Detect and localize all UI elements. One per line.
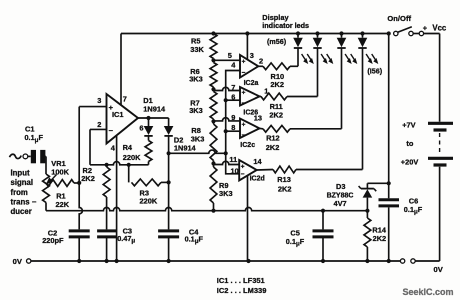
capacitor C1 — [25, 124, 47, 174]
svg-text:D3: D3 — [336, 182, 345, 191]
resistor R4 — [123, 141, 152, 165]
svg-text:(m56): (m56) — [267, 37, 287, 46]
node R2 top — [105, 163, 109, 167]
svg-text:2K2: 2K2 — [266, 143, 280, 152]
comparator IC2c — [240, 113, 262, 148]
LED D7 — [358, 31, 383, 169]
node IC1 output junction — [146, 116, 150, 120]
svg-text:to: to — [406, 139, 413, 148]
svg-text:SeekIC.com: SeekIC.com — [403, 287, 454, 297]
label IC types — [217, 276, 267, 295]
wire IC2d ground drop — [247, 176, 249, 262]
svg-text:−: − — [242, 132, 246, 139]
svg-text:6: 6 — [139, 123, 143, 132]
node 0V junctions — [77, 259, 391, 263]
AC input source — [10, 154, 31, 159]
svg-text:1N914: 1N914 — [174, 144, 197, 153]
switch On/Off — [387, 14, 440, 36]
wire 0V rail — [13, 257, 401, 266]
svg-text:33K: 33K — [190, 45, 204, 54]
svg-text:1N914: 1N914 — [143, 105, 166, 114]
wire tap D to pin11 — [214, 155, 240, 165]
zener D3 — [327, 182, 389, 211]
svg-text:+: + — [109, 103, 114, 112]
node signal takeoff — [167, 151, 171, 155]
svg-text:−: − — [109, 126, 114, 135]
svg-text:from: from — [11, 188, 28, 197]
wire tap C to pin9 — [214, 113, 241, 122]
svg-text:22K: 22K — [56, 200, 70, 209]
svg-text:6: 6 — [231, 93, 235, 102]
svg-text:9: 9 — [231, 113, 235, 122]
svg-text:Input: Input — [11, 169, 30, 178]
label input transducer — [11, 169, 37, 216]
svg-text:Vcc: Vcc — [432, 23, 447, 32]
svg-text:8: 8 — [231, 123, 235, 132]
svg-text:+: + — [242, 59, 246, 66]
svg-text:2: 2 — [97, 120, 101, 129]
svg-text:0.1μF: 0.1μF — [404, 205, 423, 216]
wire IC1 pin7 riser — [121, 34, 127, 106]
svg-text:7: 7 — [123, 95, 127, 104]
resistor R6 — [189, 60, 217, 89]
comparator IC2a — [240, 51, 263, 87]
svg-text:+7V: +7V — [402, 121, 415, 130]
capacitor C3 — [97, 227, 135, 261]
svg-text:2: 2 — [259, 56, 263, 65]
svg-text:ducer: ducer — [11, 207, 32, 216]
svg-text:3K3: 3K3 — [191, 134, 205, 143]
wire pin3 node to C2 — [79, 183, 82, 230]
svg-text:+: + — [242, 121, 246, 128]
svg-text:R11: R11 — [270, 102, 283, 111]
svg-text:IC2 . . . LM339: IC2 . . . LM339 — [217, 286, 267, 295]
wire IC2a pin3 riser — [246, 34, 248, 60]
LED D6 — [337, 31, 358, 128]
wire IC1 pin3 — [79, 107, 106, 183]
svg-text:IC2d: IC2d — [250, 176, 265, 183]
svg-text:5: 5 — [228, 51, 232, 60]
svg-text:3: 3 — [97, 96, 101, 105]
resistor R10 — [258, 63, 298, 89]
wire IC1 pin2 — [90, 129, 107, 164]
svg-text:IC2a: IC2a — [244, 80, 259, 87]
svg-text:100K: 100K — [51, 167, 69, 176]
svg-text:0V: 0V — [434, 265, 444, 274]
svg-text:2K2: 2K2 — [373, 234, 387, 243]
resistor R7 — [189, 89, 217, 121]
node VR1 junction — [77, 181, 81, 185]
svg-text:4V7: 4V7 — [334, 199, 347, 208]
resistor R12 — [260, 125, 342, 151]
svg-text:−: − — [241, 171, 245, 178]
svg-text:220pF: 220pF — [42, 236, 64, 245]
resistor R2 — [81, 165, 110, 230]
svg-text:220K: 220K — [140, 196, 158, 205]
svg-text:14: 14 — [253, 157, 262, 166]
resistor R3 — [129, 165, 169, 206]
node ladder bottom — [211, 209, 215, 213]
capacitor C6 — [379, 183, 423, 261]
terminal 0V connector — [400, 259, 443, 274]
svg-text:trans −: trans − — [11, 197, 37, 206]
svg-text:+: + — [241, 163, 245, 170]
svg-text:3K3: 3K3 — [189, 106, 203, 115]
svg-text:2K2: 2K2 — [278, 184, 292, 193]
capacitor C5 — [286, 211, 334, 261]
wire IC1 output — [138, 118, 169, 132]
svg-text:IC1: IC1 — [112, 110, 124, 119]
label Vcc — [423, 23, 447, 32]
node ladder top — [211, 31, 215, 35]
wire tap A to pin5 — [214, 51, 241, 61]
resistor R8 — [191, 121, 217, 163]
node tap C — [211, 119, 215, 123]
svg-text:2K2: 2K2 — [81, 174, 95, 183]
label display leds — [262, 13, 309, 30]
wire IC1 pin4 to 0V — [116, 136, 118, 261]
node pin3 riser top — [245, 31, 249, 35]
svg-text:0V: 0V — [13, 257, 23, 266]
wire inverting chain — [226, 61, 240, 176]
svg-text:signal: signal — [11, 178, 34, 187]
svg-text:11: 11 — [229, 155, 237, 164]
svg-text:7: 7 — [231, 83, 235, 92]
svg-text:10: 10 — [231, 166, 239, 175]
capacitor C2 — [42, 228, 89, 261]
svg-text:R4: R4 — [123, 143, 133, 152]
wire signal to chain — [169, 150, 226, 153]
node C5 top — [321, 209, 325, 213]
wire D2 node to C4 — [168, 182, 170, 229]
potentiometer VR1 — [46, 159, 79, 186]
LED D4 — [267, 31, 314, 66]
svg-text:R12: R12 — [266, 134, 280, 143]
svg-text:−: − — [242, 69, 246, 76]
wire switched supply feed — [388, 34, 390, 184]
label watermark — [403, 287, 454, 297]
comparator IC26 — [240, 86, 268, 116]
resistor R9 — [210, 164, 232, 211]
wire feedback run — [107, 162, 149, 165]
svg-text:3: 3 — [250, 51, 254, 60]
svg-text:+: + — [242, 89, 246, 96]
svg-text:3K3: 3K3 — [219, 189, 233, 198]
diode D1 — [143, 96, 166, 141]
svg-text:indicator leds: indicator leds — [262, 21, 309, 30]
svg-text:IC2c: IC2c — [240, 142, 255, 149]
resistor R14 — [364, 211, 387, 261]
node chain pin6 — [224, 98, 228, 102]
capacitor C4 — [158, 227, 203, 261]
comparator IC2d — [239, 157, 265, 183]
svg-text:13: 13 — [254, 113, 262, 122]
wire top supply rail — [121, 33, 389, 35]
resistor R13 — [257, 166, 363, 193]
resistor R5 — [190, 34, 217, 61]
wire reference rail — [46, 207, 367, 210]
node tap B — [211, 87, 215, 91]
svg-text:On/Off: On/Off — [387, 14, 411, 23]
op-amp IC1 — [97, 94, 138, 152]
svg-text:2K2: 2K2 — [269, 111, 283, 120]
svg-text:C1: C1 — [25, 124, 34, 133]
svg-text:IC1 . . . LF351: IC1 . . . LF351 — [217, 276, 265, 285]
node tap D — [211, 161, 215, 165]
resistor R1 — [43, 174, 70, 211]
node D2 cathode junction — [167, 180, 171, 184]
node R3 branch — [127, 163, 131, 167]
battery B1 — [401, 34, 453, 262]
svg-text:220K: 220K — [123, 153, 141, 162]
node D3 top junction — [387, 181, 391, 185]
node tap A — [211, 58, 215, 62]
diode D2 — [164, 118, 197, 182]
LED D5 — [313, 31, 334, 96]
svg-text:(I56): (I56) — [367, 67, 382, 76]
svg-text:−: − — [242, 100, 246, 107]
node signal chain join — [224, 151, 228, 155]
node chain pin8 — [224, 129, 228, 133]
svg-text:+20V: +20V — [401, 157, 419, 166]
svg-text:+: + — [423, 23, 428, 32]
svg-text:2K2: 2K2 — [270, 80, 284, 89]
resistor R11 — [260, 93, 318, 120]
svg-text:3K3: 3K3 — [189, 74, 203, 83]
svg-text:R13: R13 — [277, 175, 291, 184]
wire tap B to pin7 — [214, 83, 241, 92]
node D3 reference — [365, 209, 369, 213]
